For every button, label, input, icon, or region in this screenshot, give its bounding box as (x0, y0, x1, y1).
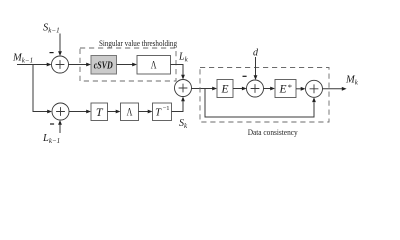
minus sign at summer S1 (50, 52, 54, 54)
label Data consistency (248, 128, 298, 137)
node d input label (253, 48, 259, 59)
svg-text:Λ: Λ (151, 57, 157, 71)
svg-text:Data consistency: Data consistency (248, 128, 298, 137)
wire T to Lambda2 (108, 110, 121, 114)
wire summer S2 to T (69, 110, 91, 114)
block E star (275, 80, 296, 98)
node S_k label (179, 118, 188, 130)
wire branch junction down-left to lower summer S2 (33, 65, 52, 114)
wire summer S5 to output M_k (323, 87, 347, 91)
block T (91, 103, 108, 121)
wire M_{k-1} input to summer S1 (17, 63, 52, 67)
svg-text:Λ: Λ (127, 105, 133, 119)
block T inverse (153, 103, 172, 121)
wire summer S4 to E star (264, 87, 276, 91)
wire S_{k-1} down into summer S1 (58, 34, 62, 57)
minus sign at summer S2 (50, 123, 54, 125)
label Singular value thresholding (99, 39, 177, 48)
node M_{k-1} input label (12, 53, 33, 65)
wire summer S3 to E with junction branch (192, 87, 218, 91)
wire Lambda2 to T inverse (139, 110, 153, 114)
summer S1 (M minus S) (52, 56, 69, 73)
node M_k output label (345, 75, 359, 87)
wire T inverse out corner up into summer S3 (172, 97, 185, 112)
minus sign at summer S4 (243, 75, 247, 77)
block Lambda1 (137, 56, 171, 75)
node L_k label (178, 52, 189, 64)
svg-text:−1: −1 (163, 105, 170, 112)
wire E star to summer S5 (296, 87, 306, 91)
summer S4 (E M minus d) (247, 80, 264, 97)
wire d down into summer S4 (254, 57, 258, 80)
summer S2 (M minus L) (52, 103, 69, 120)
node S_{k-1} input label (43, 23, 60, 35)
wire cSVD to Lambda1 (117, 63, 138, 67)
svg-text:cSVD: cSVD (94, 61, 113, 72)
wire Lambda1 out corner down into summer S3 (171, 65, 185, 80)
wire E to summer S4 (233, 87, 247, 91)
svg-text:Singular value thresholding: Singular value thresholding (99, 39, 177, 48)
wire feedback bypass from junction to summer S5 bottom (205, 89, 316, 118)
svg-text:E: E (278, 84, 286, 96)
node L_{k-1} input label (42, 133, 60, 145)
svg-text:*: * (288, 82, 292, 92)
block cSVD (91, 56, 117, 75)
block Lambda2 (121, 103, 139, 121)
wire L_{k-1} up into summer S2 (58, 120, 62, 133)
summer S3 (L plus S) (175, 80, 192, 97)
block E (217, 80, 233, 98)
summer S5 (output summer) (306, 80, 323, 97)
wire summer S1 to cSVD (69, 63, 92, 67)
svg-text:E: E (220, 84, 228, 96)
dashed box: data consistency (200, 68, 329, 123)
dashed box: singular value thresholding (80, 48, 176, 81)
